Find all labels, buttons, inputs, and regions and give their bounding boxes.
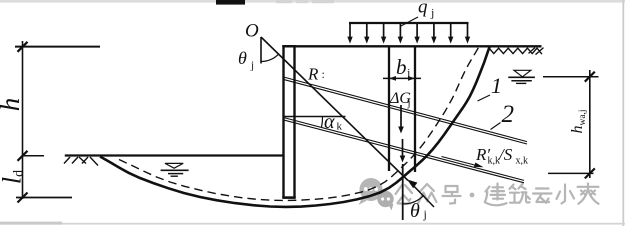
slice left boundary: [388, 46, 390, 171]
tick bottom h_wa,j: [585, 168, 595, 178]
hatch right ground zigzag: [489, 48, 544, 55]
wall top cap: [282, 45, 295, 47]
second small down arrow: [402, 139, 404, 157]
anchor resistance arrow R'kk/Sxk: [442, 157, 478, 166]
alpha_k horizontal arm: [284, 116, 346, 118]
svg-text:q: q: [418, 0, 428, 18]
ground surface right: [284, 45, 542, 47]
dimension h_wa,j vertical: [589, 70, 591, 178]
anchor upper double line (2): [283, 77, 527, 144]
surcharge top bar: [349, 22, 469, 24]
svg-text:2: 2: [502, 101, 515, 128]
stub middle left dimension: [23, 155, 45, 157]
radius line R from O to slip surface: [261, 37, 408, 181]
tick top h_wa,j: [585, 72, 595, 82]
char gong: [396, 185, 413, 204]
char hao: [443, 186, 461, 204]
alpha_k angle arc: [322, 117, 323, 128]
svg-text:O: O: [245, 21, 259, 42]
page border right strip: [622, 0, 624, 226]
svg-text:j: j: [406, 66, 410, 80]
tick top left dimension: [18, 42, 28, 52]
dimension line left vertical: [22, 41, 24, 199]
svg-text:R: R: [307, 65, 319, 84]
svg-text:j: j: [250, 60, 254, 72]
surcharge arrows q_j: [350, 23, 468, 39]
stub bottom left dimension: [16, 197, 72, 199]
svg-text::: :: [322, 67, 325, 81]
b_j arrowhead left: [389, 76, 396, 81]
svg-text:θ: θ: [238, 48, 247, 68]
svg-text:1: 1: [491, 73, 502, 98]
water table symbol left: [161, 163, 189, 176]
svg-text:k: k: [337, 121, 343, 133]
b_j dimension line: [383, 77, 421, 79]
cropped text remnant bar top: [216, 0, 245, 5]
vertical line below O: [260, 37, 262, 64]
leader 2: [491, 123, 501, 130]
wall right line: [293, 45, 295, 198]
dimension h_wa,j bottom horizontal: [548, 172, 594, 174]
slip circle dashed arc: [119, 48, 479, 201]
tick middle left dimension: [18, 151, 28, 161]
wall left line: [282, 45, 284, 198]
page border top strip: [0, 0, 625, 3]
svg-text:j: j: [423, 207, 427, 221]
char yun: [533, 189, 552, 203]
anchor lower double line: [283, 117, 524, 182]
wall bottom cap: [282, 196, 295, 199]
watermark text (hand-drawn CJK strokes): [396, 184, 599, 206]
char jian: [485, 184, 507, 206]
slip circle solid arc: [100, 47, 490, 207]
excavation bottom line: [65, 154, 284, 156]
svg-text:α: α: [324, 111, 335, 133]
svg-text:/S: /S: [498, 145, 513, 164]
page border bottom strip: [0, 223, 625, 225]
radius direction arrow at slip surface: [409, 181, 434, 207]
svg-text:x,k: x,k: [516, 156, 529, 167]
angle arc theta_j bottom: [403, 195, 424, 204]
b_j arrowhead right: [408, 76, 415, 81]
leader 1: [478, 95, 491, 101]
dG_j arrow shaft: [400, 105, 402, 129]
dimension h_wa,j top horizontal: [543, 76, 599, 78]
arrowhead pointing up-left toward O: [407, 179, 417, 188]
hatch left excavation: [64, 157, 98, 166]
ground surface stub left: [15, 46, 100, 48]
char zhong: [419, 184, 437, 203]
char zhu: [510, 184, 530, 203]
vertical line through slip point: [402, 164, 404, 220]
faint remnant marks top: [276, 0, 292, 3]
char xiao: [557, 185, 575, 204]
svg-text:j: j: [407, 97, 411, 109]
char shuang: [578, 184, 599, 204]
water table symbol right: [508, 70, 535, 83]
svg-text:b: b: [396, 55, 407, 79]
svg-text:h: h: [0, 98, 25, 112]
slice right boundary: [414, 46, 416, 172]
dG_j arrowhead: [398, 127, 404, 134]
svg-text:j: j: [430, 6, 434, 20]
tick bottom left dimension: [18, 193, 28, 203]
dot separator: [470, 193, 475, 198]
watermark icon chat bubbles: [359, 178, 394, 211]
svg-text:θ: θ: [410, 200, 420, 222]
angle arc theta_j top: [261, 54, 279, 61]
leader q_j: [401, 17, 418, 26]
